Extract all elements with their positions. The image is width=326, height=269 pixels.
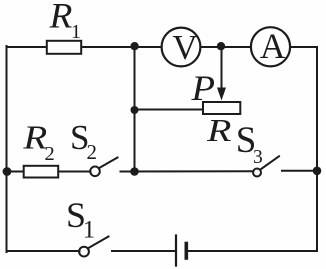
svg-text:R: R bbox=[22, 119, 47, 156]
svg-text:1: 1 bbox=[83, 216, 96, 243]
svg-text:R: R bbox=[48, 0, 72, 35]
svg-text:2: 2 bbox=[45, 143, 55, 165]
svg-text:3: 3 bbox=[253, 147, 263, 168]
svg-text:2: 2 bbox=[87, 140, 98, 164]
svg-text:V: V bbox=[172, 28, 197, 67]
svg-text:A: A bbox=[260, 26, 286, 66]
svg-text:1: 1 bbox=[71, 21, 81, 43]
svg-text:P: P bbox=[190, 69, 215, 108]
svg-text:R: R bbox=[206, 113, 232, 148]
